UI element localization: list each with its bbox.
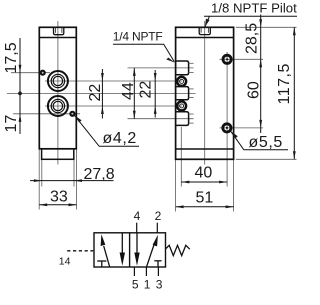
ext line hole B horizontal (13, 113, 80, 115)
centerline boss1 horizontal / ext for 44 (128, 67, 194, 69)
centerline boss3 horizontal / ext for 44 (128, 118, 194, 120)
arrow 28.5 top (outside, down) (259, 19, 262, 27)
svg-text:4: 4 (134, 209, 141, 223)
port circle bottom outer (48, 96, 68, 116)
arrows 22 left view (outside) (101, 73, 104, 81)
arrow leader o4.2 (74, 115, 81, 122)
side port boss 1 (176, 61, 188, 75)
top notch outer (54, 28, 64, 35)
svg-text:22: 22 (138, 81, 155, 99)
ext line mount hole1 horizontal (220, 58, 264, 60)
dim line 27.8 (30, 180, 114, 182)
down arrow A shaft (121, 233, 123, 255)
svg-text:44: 44 (120, 82, 137, 100)
right box flow arrow shaft (147, 245, 154, 267)
port labels (132, 209, 163, 292)
valve body side view outline (39, 27, 76, 149)
side port boss 3 (176, 112, 188, 126)
valve body front view outline (176, 27, 234, 159)
arrow leader pilot (205, 19, 210, 27)
svg-text:28,5: 28,5 (244, 23, 261, 54)
port 5 stub (133, 267, 135, 276)
dim line 28.5 / 60 (260, 15, 262, 134)
arrow 60 bottom (down) (259, 120, 262, 128)
svg-text:17: 17 (3, 115, 20, 133)
svg-text:51: 51 (196, 190, 214, 207)
svg-text:22: 22 (87, 84, 104, 102)
arrow 17.5 top (down to hole A line) (19, 65, 22, 73)
top band line (39, 37, 76, 39)
svg-text:1/4 NPTF: 1/4 NPTF (113, 29, 163, 43)
port circle top inner (53, 76, 62, 85)
centerline left view vertical (57, 21, 59, 165)
arrows 40 (inside) (181, 181, 189, 184)
svg-text:5: 5 (132, 278, 139, 292)
port circle bottom middle (51, 99, 64, 112)
centerline bottom ports horizontal (45, 105, 182, 107)
centerline mid horizontal (7, 92, 196, 94)
right box T bar (154, 260, 161, 262)
dim line 17.5 / 17 (19, 38, 21, 134)
port 2 stub (156, 223, 158, 233)
arrow leader 1/4 NPTF (166, 58, 175, 63)
left box T bar (97, 260, 106, 262)
svg-text:1/8 NPTF Pilot: 1/8 NPTF Pilot (211, 1, 297, 16)
dim line 22 right view (154, 70, 156, 118)
division line (129, 233, 131, 267)
arrow leader o5.5 (231, 131, 238, 138)
small hole B (69, 111, 75, 117)
leader o4.2 (75, 116, 139, 147)
svg-text:33: 33 (50, 189, 68, 206)
leader o5.5 (231, 131, 288, 150)
ring port bottom (177, 101, 186, 110)
down arrow B head (134, 253, 139, 266)
centerline top ports horizontal (45, 80, 182, 82)
boss3 thread lines (189, 113, 194, 115)
port circle top outer (48, 71, 68, 91)
small hole A (40, 70, 46, 76)
pilot dashed line 14 (67, 250, 93, 252)
mounting hole bottom (223, 124, 231, 132)
pilot notch outer (199, 28, 210, 35)
dim line 44 (133, 68, 135, 119)
port 3 stub (157, 267, 159, 276)
port circle top middle (51, 74, 64, 87)
port 4 stub (136, 223, 138, 233)
svg-text:60: 60 (246, 81, 263, 99)
port 1 stub (145, 267, 147, 276)
arrows 27.8 (outside) (34, 179, 42, 182)
svg-text:2: 2 (155, 209, 162, 223)
dim line 51 (176, 206, 234, 208)
leader 1/8 NPTF Pilot (204, 16, 297, 26)
double tick mid (18, 92, 22, 96)
dim line 117.5 (293, 27, 295, 159)
left box T stem (101, 261, 103, 267)
bottom step line (176, 148, 234, 150)
ext line hole A horizontal (11, 72, 50, 74)
centerline right view vertical (204, 21, 206, 165)
dimension texts (3, 23, 293, 207)
boss2 thread lines (189, 88, 194, 90)
arrows 51 (inside) (176, 205, 184, 208)
svg-text:3: 3 (156, 278, 163, 292)
centerline mounting holes vertical / ext for 40 (226, 52, 228, 187)
leader 1/4 NPTF (113, 44, 174, 62)
ext line bottom edge right (236, 158, 297, 160)
svg-text:ø5,5: ø5,5 (249, 134, 283, 151)
arrows 44 (inside) (133, 68, 136, 76)
svg-text:17,5: 17,5 (3, 42, 20, 73)
ext line top edge right (236, 26, 297, 28)
ext line mount hole2 horizontal (220, 127, 264, 129)
side port boss 2 (176, 87, 188, 100)
svg-text:117,5: 117,5 (276, 63, 293, 104)
dim line 22 left view (101, 69, 103, 119)
right box T stem (157, 261, 159, 267)
top band line (176, 37, 234, 39)
left arrow head (101, 234, 106, 246)
ring port top (177, 77, 186, 86)
arrows 117.5 (inside) (293, 27, 296, 35)
down arrow B shaft (136, 233, 138, 255)
ext line side-port axis for 40 (180, 127, 182, 187)
dim line 33 (39, 204, 76, 206)
ext lines below left view for 27.8 (41, 160, 43, 187)
top notch inner (55, 28, 62, 33)
bottom base band (42, 149, 74, 160)
svg-text:ø4,2: ø4,2 (103, 130, 137, 147)
svg-text:1: 1 (144, 278, 151, 292)
svg-text:40: 40 (195, 165, 213, 182)
down arrow A head (120, 253, 125, 266)
left box flow arrow (97, 233, 161, 267)
dim line 40 (181, 181, 227, 183)
arrows 33 (inside) (39, 203, 47, 206)
arrowheads (18, 19, 296, 209)
right arrow head (153, 235, 158, 247)
boss1 thread lines (189, 62, 194, 64)
arrow 60 top (up) (259, 59, 262, 67)
arrow 17 bottom (up to hole B line) (19, 114, 22, 122)
mounting hole top (223, 55, 231, 63)
ext lines below right view for 51 (175, 160, 177, 212)
valve body box (94, 233, 166, 267)
svg-text:27,8: 27,8 (84, 166, 115, 183)
arrows 22 right view (outside) (154, 73, 157, 81)
spring (166, 245, 190, 255)
svg-text:14: 14 (59, 256, 71, 268)
ext lines below left view for 33 (38, 150, 40, 210)
port circle bottom inner (53, 101, 62, 110)
pilot notch inner (201, 28, 208, 33)
